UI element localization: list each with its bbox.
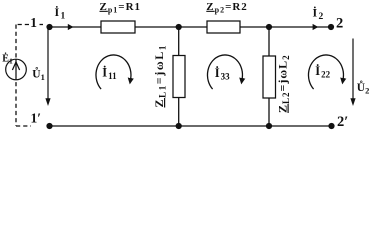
mesh current loop I22 — [308, 55, 343, 89]
svg-text:1: 1 — [30, 15, 37, 30]
mesh current loop I11 — [96, 55, 131, 89]
wire: top conductor 1 to 2 — [50, 26, 332, 28]
wire: dashed source branch vertical — [15, 25, 17, 127]
node 2' — [328, 123, 334, 129]
wire: dashed lead from source to node 1 — [16, 24, 29, 26]
voltage source E1 — [6, 59, 27, 80]
wire: dashed lead to node 1' — [16, 125, 31, 127]
node at bottom of ZL1 — [176, 123, 182, 129]
svg-text:Zp1=R1: Zp1=R1 — [100, 1, 142, 15]
node at top of ZL2 — [266, 24, 272, 30]
mesh current loop I33 — [207, 55, 242, 89]
svg-text:İ1: İ1 — [55, 5, 66, 22]
impedance ZL1 (jwL1) box — [173, 56, 185, 98]
svg-text:Ů2: Ů2 — [357, 79, 370, 95]
svg-text:İ11: İ11 — [102, 66, 117, 82]
node at top of ZL1 — [176, 24, 182, 30]
node 2 — [328, 24, 334, 30]
wire: right shunt branch — [268, 27, 270, 126]
wire: short dash before node 1 — [40, 24, 44, 26]
impedance ZL2 (jwL2) box — [263, 56, 276, 98]
voltage arrow U2 — [352, 39, 354, 100]
svg-text:2: 2 — [336, 16, 343, 32]
svg-text:Ů1: Ů1 — [32, 66, 45, 82]
current arrow I2 on top wire — [313, 24, 319, 30]
resistor Zp1=R1 — [101, 21, 135, 33]
node at bottom of ZL2 — [266, 123, 272, 129]
wire: left shunt branch — [178, 27, 180, 126]
svg-text:ZL2=jωL2: ZL2=jωL2 — [276, 54, 292, 113]
svg-text:2′: 2′ — [337, 114, 348, 130]
wire: bottom conductor 1' to 2' — [50, 125, 332, 127]
node 1 — [46, 24, 52, 30]
svg-text:Ė1: Ė1 — [2, 53, 13, 66]
svg-text:Zp2=R2: Zp2=R2 — [206, 1, 248, 15]
svg-text:1′: 1′ — [31, 111, 42, 126]
current arrow I1 on top wire — [68, 24, 74, 30]
svg-text:İ22: İ22 — [315, 64, 330, 80]
resistor Zp2=R2 — [207, 21, 240, 33]
svg-text:ZL1=jωL1: ZL1=jωL1 — [152, 44, 168, 107]
svg-text:İ33: İ33 — [215, 66, 230, 82]
voltage arrow U1 — [47, 29, 49, 99]
svg-text:İ2: İ2 — [313, 6, 324, 23]
node 1' — [46, 123, 52, 129]
